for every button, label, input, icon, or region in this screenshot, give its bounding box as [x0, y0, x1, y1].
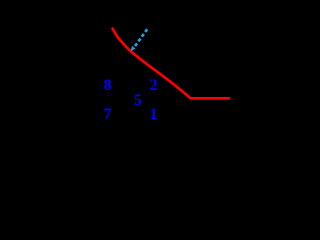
cyan arrowhead	[131, 46, 136, 51]
red curve (piecewise)	[113, 29, 230, 99]
cyan dashed arrow shaft	[134, 29, 147, 48]
svg-text:8: 8	[104, 77, 112, 94]
svg-text:2: 2	[150, 77, 158, 94]
svg-text:7: 7	[104, 106, 112, 123]
svg-text:1: 1	[150, 106, 158, 123]
svg-text:5: 5	[134, 92, 142, 109]
